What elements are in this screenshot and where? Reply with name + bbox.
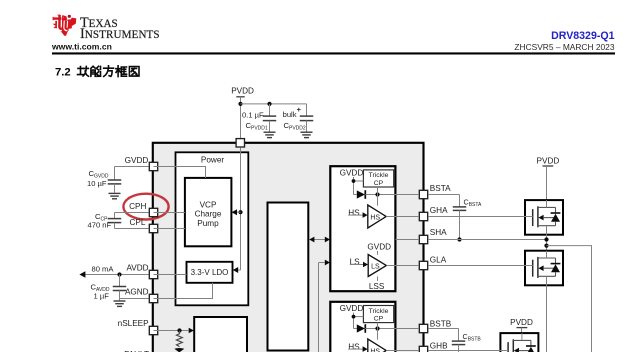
capacitor CPVDD1 0.1uF bbox=[269, 104, 271, 116]
nfet body diode bbox=[555, 207, 557, 213]
nfet box bbox=[525, 251, 563, 286]
junction cap CPVDD1 bbox=[267, 102, 271, 106]
pin GVDD terminal bbox=[149, 162, 157, 170]
nfet drain link bbox=[538, 206, 556, 208]
svg-text:0.1 µF: 0.1 µF bbox=[242, 111, 264, 120]
nfet gate bar bbox=[532, 260, 534, 277]
svg-text:GLA: GLA bbox=[430, 256, 447, 265]
block gate driver B bbox=[330, 302, 395, 352]
resistor nSLEEP pulldown bbox=[177, 331, 183, 347]
block Power bbox=[176, 152, 249, 305]
PVDD tick (phase B) bbox=[517, 327, 528, 329]
svg-text:HS: HS bbox=[348, 343, 360, 352]
wire SHA branch to right bbox=[547, 246, 592, 352]
svg-text:nSLEEP: nSLEEP bbox=[118, 319, 149, 328]
capacitor CAVDD 1uF bbox=[119, 275, 121, 287]
wire SHA to half-bridge bbox=[428, 239, 546, 241]
svg-text:PVDD: PVDD bbox=[510, 318, 533, 327]
nfet channel bar bbox=[537, 257, 539, 278]
wire PVDD rail inside power block bbox=[240, 148, 242, 270]
svg-text:PVDD: PVDD bbox=[231, 87, 254, 96]
svg-text:bulk: bulk bbox=[283, 110, 297, 119]
svg-text:CPL: CPL bbox=[129, 218, 145, 227]
svg-text:ZHCSVR5 – MARCH 2023: ZHCSVR5 – MARCH 2023 bbox=[514, 42, 614, 52]
junction rail to VCP bbox=[238, 210, 242, 214]
TI logo (red Texas emblem) bbox=[53, 14, 77, 36]
wire LS FET A source down bbox=[546, 285, 548, 352]
svg-text:10 µF: 10 µF bbox=[87, 179, 107, 188]
op-amp HS gate driver B bbox=[368, 339, 386, 352]
svg-text:GVDD: GVDD bbox=[340, 168, 364, 177]
svg-text:GVDD: GVDD bbox=[367, 242, 391, 251]
op-amp HS gate driver A bbox=[368, 205, 386, 228]
svg-text:AGND: AGND bbox=[125, 287, 149, 296]
nfet body arrow bbox=[538, 215, 543, 221]
wire CPL into VCP bbox=[154, 228, 185, 230]
annotation red circle around CPH bbox=[123, 194, 168, 220]
capacitor CCP 470nF bbox=[114, 213, 116, 219]
control bus core to gate driver A bbox=[309, 239, 329, 241]
wire LS source to LSS A bbox=[377, 277, 379, 281]
wire CPL to CCP bbox=[115, 228, 149, 230]
pin GLA terminal bbox=[419, 261, 427, 269]
pin PVDD terminal bbox=[236, 139, 244, 147]
svg-text:BSTB: BSTB bbox=[430, 319, 452, 328]
block 3.3-V LDO bbox=[187, 262, 233, 283]
svg-text:PVDD: PVDD bbox=[537, 156, 560, 165]
nfet body arrow bbox=[538, 265, 543, 271]
nfet drain stub bbox=[546, 251, 548, 258]
control wire to gate driver B bbox=[318, 263, 320, 352]
block trickle charge pump B bbox=[363, 306, 393, 323]
nfet source link bbox=[538, 225, 556, 227]
svg-text:INSTRUMENTS: INSTRUMENTS bbox=[80, 26, 160, 42]
junction PVDD/caps bbox=[238, 102, 242, 106]
nfet drain link bbox=[513, 339, 531, 341]
svg-text:Charge: Charge bbox=[195, 210, 222, 219]
nfet channel bar bbox=[512, 339, 514, 352]
svg-text:HS: HS bbox=[348, 209, 360, 218]
svg-text:GVDD: GVDD bbox=[340, 304, 364, 313]
nfet body diode bbox=[530, 340, 532, 346]
wire BSTB to CBSTB bbox=[428, 328, 458, 330]
block digital core (bottom) bbox=[194, 317, 247, 352]
wire arrow into VCP bbox=[233, 211, 241, 213]
pin GHA terminal bbox=[419, 212, 427, 220]
device outline (gray block DRV8329-Q1) bbox=[153, 143, 424, 352]
svg-text:BSTA: BSTA bbox=[430, 184, 451, 193]
wire AVDD output with arrow bbox=[85, 274, 149, 276]
wire GLA to LS FET A gate bbox=[428, 265, 533, 267]
wire arrow into LDO bbox=[234, 269, 241, 271]
junction SHA node bbox=[544, 237, 548, 241]
wire diode to BSTB terminal bbox=[365, 328, 418, 330]
wire to decoupling caps bbox=[241, 103, 307, 105]
pin AGND terminal bbox=[149, 294, 157, 302]
block gate driver A bbox=[330, 166, 395, 291]
svg-text:DRV8329-Q1: DRV8329-Q1 bbox=[551, 30, 615, 42]
junction AVDD/CAVDD bbox=[117, 272, 121, 276]
wire trickle CP down to HS driver A bbox=[377, 187, 379, 206]
wire LS output to GLA bbox=[386, 265, 418, 267]
wire PVDD to HS FET B drain bbox=[521, 328, 523, 341]
ground CPVDD1 bbox=[264, 131, 276, 133]
wire HS input arrow B bbox=[348, 348, 363, 350]
nfet gate bar bbox=[507, 342, 509, 352]
svg-text:470 nF: 470 nF bbox=[88, 220, 112, 229]
junction trickle/BSTB bbox=[375, 326, 379, 330]
nfet box bbox=[525, 200, 563, 235]
svg-text:Power: Power bbox=[201, 156, 224, 165]
wire AVDD into LDO bbox=[154, 274, 187, 276]
wire GVDD to LS driver A bbox=[377, 251, 379, 255]
block predriver core (tall) bbox=[268, 203, 309, 351]
svg-text:3.3-V LDO: 3.3-V LDO bbox=[191, 268, 229, 277]
wire nSLEEP into core bbox=[154, 330, 189, 332]
svg-text:CPH: CPH bbox=[129, 202, 146, 211]
wire trickle CP down to HS driver B bbox=[377, 323, 379, 340]
nfet drain stub bbox=[546, 200, 548, 207]
heading chinese characters (drawn) bbox=[78, 66, 140, 77]
nfet gate bar bbox=[532, 209, 534, 226]
ground CGVDD bbox=[109, 192, 121, 194]
ground CAVDD bbox=[114, 300, 126, 302]
svg-text:CP: CP bbox=[374, 316, 384, 323]
pin AVDD terminal bbox=[149, 270, 157, 278]
nfet body arrow bbox=[514, 348, 519, 352]
pin BSTB terminal bbox=[419, 324, 427, 332]
svg-text:www.ti.com.cn: www.ti.com.cn bbox=[51, 42, 112, 52]
block trickle charge pump A bbox=[363, 170, 393, 187]
svg-text:SHA: SHA bbox=[430, 228, 447, 237]
svg-text:VCP: VCP bbox=[200, 200, 217, 209]
op-amp LS gate driver A bbox=[368, 255, 386, 277]
svg-text:HS: HS bbox=[370, 215, 380, 222]
pin CPL terminal bbox=[149, 224, 157, 232]
svg-text:+: + bbox=[297, 105, 302, 114]
svg-text:LS: LS bbox=[371, 264, 380, 271]
wire GVDD into power block bbox=[154, 167, 206, 178]
svg-text:GVDD: GVDD bbox=[125, 156, 149, 165]
diode GVDD to BSTA bbox=[354, 194, 357, 196]
wire HS input arrow A bbox=[348, 214, 363, 216]
svg-text:Pump: Pump bbox=[197, 219, 219, 228]
svg-text:Trickle: Trickle bbox=[369, 308, 389, 315]
wire GVDD to CGVDD bbox=[115, 166, 149, 168]
svg-text:80 mA: 80 mA bbox=[92, 265, 115, 274]
capacitor CBSTA bbox=[453, 206, 467, 208]
svg-text:LSS: LSS bbox=[369, 282, 385, 291]
wire GVDD feed B bbox=[353, 313, 355, 329]
wire PVDD down to pin bbox=[240, 97, 242, 138]
wire GHB to HS FET B gate bbox=[428, 350, 508, 352]
nfet source stub bbox=[546, 226, 548, 235]
pin SHA terminal bbox=[419, 235, 427, 243]
wire LS input arrow A bbox=[350, 264, 364, 266]
nfet body diode bbox=[555, 258, 557, 264]
nfet channel bar bbox=[537, 206, 539, 227]
wire HS output to GHB bbox=[386, 350, 418, 352]
wire AGND to ground node bbox=[120, 298, 149, 300]
svg-text:LS: LS bbox=[350, 258, 361, 267]
nfet source stub bbox=[546, 276, 548, 285]
svg-text:1 µF: 1 µF bbox=[94, 292, 110, 301]
wire CBSTA to SHA bbox=[459, 210, 461, 239]
header rule bbox=[52, 52, 615, 54]
pin GHB terminal bbox=[419, 346, 427, 352]
capacitor CBSTB bbox=[452, 340, 466, 342]
wire GVDD feed A bbox=[353, 177, 355, 195]
ground CPVDD2 bbox=[301, 131, 313, 133]
wire diode to BSTA terminal bbox=[365, 194, 418, 196]
wire AGND to LDO bottom bbox=[154, 283, 213, 299]
svg-text:Trickle: Trickle bbox=[369, 172, 389, 179]
svg-text:CP: CP bbox=[374, 180, 384, 187]
nfet box bbox=[500, 333, 538, 352]
diode GVDD to BSTB bbox=[354, 328, 357, 330]
wire GHA to HS FET A gate bbox=[428, 216, 533, 218]
PVDD rail tick bbox=[236, 96, 244, 98]
svg-text:7.2: 7.2 bbox=[55, 66, 71, 78]
capacitor CPVDD2 bulk bbox=[306, 104, 308, 116]
pin nSLEEP terminal bbox=[149, 326, 157, 334]
nfet source link bbox=[538, 275, 556, 277]
wire CPH to CCP bbox=[115, 212, 149, 214]
pin CPH terminal bbox=[149, 208, 157, 216]
svg-text:GHA: GHA bbox=[430, 206, 448, 215]
junction trickle/BSTA bbox=[375, 192, 379, 196]
pin BSTA terminal bbox=[419, 190, 427, 198]
svg-text:AVDD: AVDD bbox=[126, 264, 148, 273]
wire HS FET A source to SHA node bbox=[546, 235, 548, 251]
junction SHA branch bbox=[544, 244, 548, 248]
arrow to ground (pulldown) bbox=[174, 348, 184, 352]
svg-text:GHB: GHB bbox=[430, 341, 448, 350]
wire CPH into VCP bbox=[154, 212, 185, 214]
wire PVDD to HS FET A drain bbox=[546, 166, 548, 207]
wire BSTA to CBSTA bbox=[428, 194, 459, 196]
wire CBSTB down (clipped) bbox=[458, 345, 460, 352]
block VCP charge pump bbox=[185, 178, 232, 246]
PVDD tick (phase A) bbox=[543, 165, 554, 167]
junction CBSTA/SHA bbox=[457, 237, 461, 241]
nfet drain stub bbox=[521, 333, 523, 340]
nfet drain link bbox=[538, 257, 556, 259]
wire SHA into driver block bbox=[395, 239, 418, 241]
capacitor CGVDD bbox=[114, 167, 116, 180]
junction nSLEEP pulldown bbox=[177, 328, 181, 332]
wire HS output to GHA bbox=[386, 216, 418, 218]
